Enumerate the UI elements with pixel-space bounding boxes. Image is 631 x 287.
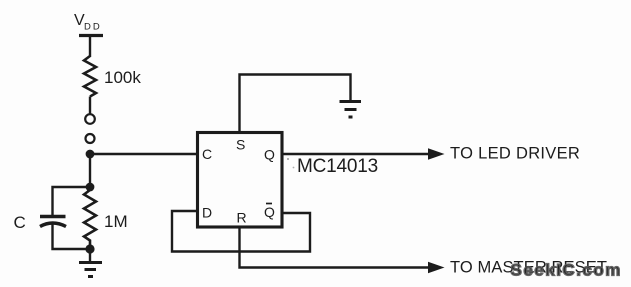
node B junction dot xyxy=(86,183,95,192)
capacitor C bottom plate xyxy=(40,223,66,227)
VDD power rail bar xyxy=(79,34,103,37)
wire node A to C input xyxy=(90,153,198,155)
wire capacitor to node C xyxy=(53,225,91,250)
wire Q output to LED driver xyxy=(281,153,430,155)
part label 1/2 MC14013 xyxy=(287,156,378,177)
wire R1 to switch contact xyxy=(89,97,91,115)
wire VDD to R1 xyxy=(89,36,91,58)
svg-text:1M: 1M xyxy=(104,212,128,231)
svg-text:Q: Q xyxy=(264,147,275,163)
wire S to top rail xyxy=(240,75,351,133)
svg-text:SeekIC.com: SeekIC.com xyxy=(511,261,622,280)
svg-text:D: D xyxy=(202,205,212,221)
arrowhead to LED driver xyxy=(428,148,445,159)
VDD label xyxy=(74,12,102,33)
wire node C to ground xyxy=(89,249,91,262)
node A junction dot xyxy=(86,150,95,159)
svg-text:TO LED DRIVER: TO LED DRIVER xyxy=(450,145,580,163)
resistor R1 100k xyxy=(84,56,96,97)
svg-text:R: R xyxy=(237,210,247,226)
svg-text:100k: 100k xyxy=(104,68,141,87)
svg-text:C: C xyxy=(202,146,212,162)
wire D input loop to Q-bar xyxy=(172,211,310,252)
svg-text:S: S xyxy=(236,137,245,153)
svg-text:C: C xyxy=(14,213,26,232)
flip-flop U1 MC14013 box xyxy=(198,133,283,228)
wire R to master reset xyxy=(240,227,431,268)
Q-bar overbar xyxy=(266,203,272,205)
arrowhead to master reset xyxy=(428,262,445,273)
wire node A down to node B xyxy=(89,154,91,187)
capacitor C top plate xyxy=(40,215,66,219)
ground (bottom left) xyxy=(79,263,102,277)
svg-text:DD: DD xyxy=(84,22,102,33)
switch contact circle lower xyxy=(86,134,95,143)
node C junction dot xyxy=(85,244,94,253)
svg-text:Q: Q xyxy=(264,204,275,220)
switch contact circle upper xyxy=(85,114,95,124)
resistor R2 1M xyxy=(84,187,96,249)
svg-text:MC14013: MC14013 xyxy=(297,156,378,177)
wire node B to capacitor xyxy=(53,187,91,215)
ground (top, on S line) xyxy=(340,102,362,118)
